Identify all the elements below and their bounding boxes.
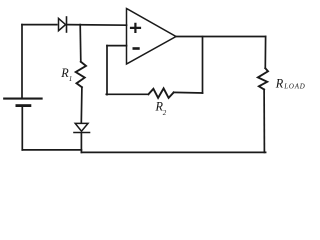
wire bottom rail right segment — [81, 151, 265, 153]
svg-text:R: R — [275, 77, 284, 91]
wire R2 right side to feedback riser — [174, 91, 203, 94]
wire battery - plate down to bottom rail — [21, 107, 23, 150]
wire feedback right vertical riser to output node — [202, 37, 204, 93]
label R1 — [60, 66, 72, 83]
svg-text:LOAD: LOAD — [283, 84, 305, 91]
node junction at top of R1 branch — [79, 25, 82, 62]
wire feedback left vertical — [106, 46, 108, 95]
wire diode cathode to op-amp + input — [68, 24, 127, 27]
wire top-left horizontal to diode anode — [22, 24, 57, 26]
resistor R2 (horizontal zigzag) — [148, 88, 173, 98]
wire RLOAD bottom lead to bottom rail — [263, 89, 265, 152]
wire left vertical from top corner to battery + plate — [21, 25, 23, 98]
wire right vertical down to RLOAD — [264, 37, 266, 69]
wire op-amp output to top-right corner — [176, 36, 266, 38]
svg-text:2: 2 — [163, 109, 167, 117]
wire feedback bottom left to R2 — [106, 93, 148, 95]
label R2 — [155, 100, 167, 118]
diode D1 (series, pointing right) — [59, 17, 67, 32]
wire inverting input stub — [107, 45, 127, 47]
wire bottom rail left segment — [22, 149, 81, 151]
op-amp U1 — [127, 9, 177, 65]
wire R1 bottom lead down to diode D2 — [80, 87, 83, 123]
label RLOAD — [275, 77, 306, 91]
battery B1 — [4, 99, 41, 106]
resistor RLOAD (vertical zigzag) — [258, 68, 268, 89]
wire D2 cathode to bottom rail — [80, 133, 82, 152]
svg-text:1: 1 — [69, 75, 73, 83]
diode D2 (shunt, pointing down) — [74, 123, 90, 132]
resistor R1 (vertical zigzag) — [76, 62, 86, 87]
